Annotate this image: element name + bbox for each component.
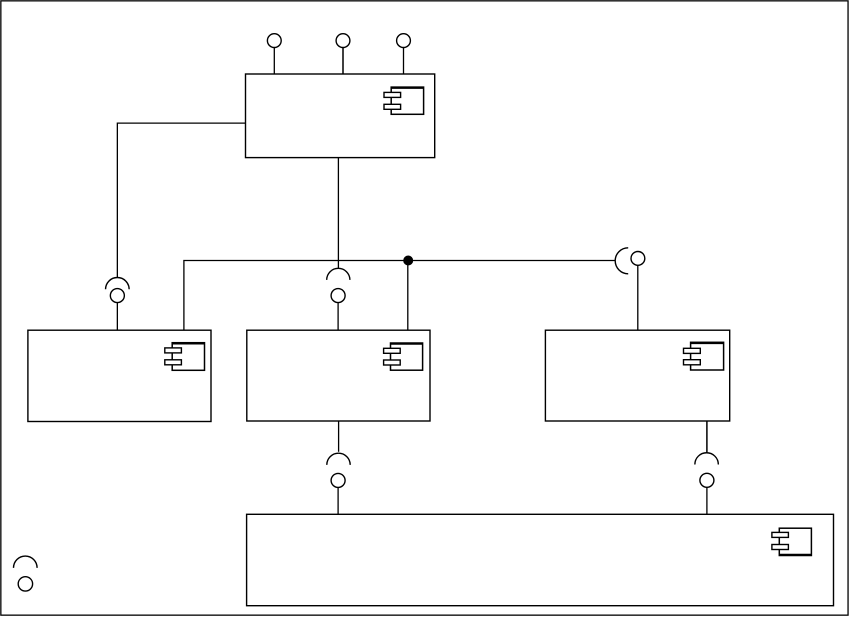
lollipop interface ball 1	[267, 34, 281, 48]
lollipop interface stem 1 (top-left of C1)	[273, 48, 275, 75]
wire ball down to bottom component top	[706, 487, 708, 514]
wire from junction dot down to middle component top	[407, 261, 409, 331]
ball below middle component	[331, 473, 345, 487]
wire ball to left component top	[116, 303, 118, 331]
component icon of C2	[165, 343, 205, 371]
ball (provided interface) at bus right end	[631, 252, 645, 266]
wire ball down to right component top	[637, 265, 639, 330]
wire ball to middle component top	[337, 303, 339, 331]
bus wire with elbow down to left component top	[184, 261, 615, 331]
wire from C1 left edge down to left socket	[117, 123, 245, 277]
socket below middle component	[327, 453, 350, 465]
component C2 (left)	[28, 330, 211, 421]
component C5 (bottom)	[247, 514, 834, 605]
component C3 (middle)	[247, 330, 430, 421]
isolated socket (required interface) bottom-left	[14, 556, 38, 568]
component icon of C1	[384, 87, 424, 114]
socket (required interface) above left component	[106, 278, 130, 290]
lollipop interface stem 2 (top-middle of C1)	[342, 48, 344, 75]
wire ball down to bottom component top	[337, 487, 339, 514]
ball (provided interface) above middle component	[331, 289, 345, 303]
ball (provided interface) above left component	[110, 289, 124, 303]
component icon of C3	[384, 343, 423, 370]
wire from C1 bottom down through bus to middle socket	[337, 158, 339, 269]
socket (required interface) above middle component	[327, 268, 350, 280]
isolated ball (provided interface) bottom-left	[18, 577, 32, 591]
component icon of C5	[772, 528, 812, 555]
socket (required interface, opens right) on bus right end	[615, 248, 628, 274]
component C1 (top)	[246, 74, 435, 158]
component icon of C4	[684, 342, 724, 370]
component C4 (right)	[545, 330, 729, 421]
ball below right component	[700, 473, 714, 487]
lollipop interface ball 3	[397, 34, 411, 48]
lollipop interface stem 3 (top-right of C1)	[403, 48, 405, 75]
lollipop interface ball 2	[336, 34, 350, 48]
wire right component bottom down to socket	[706, 421, 708, 452]
wire middle component bottom down to socket	[338, 421, 340, 452]
socket below right component	[695, 453, 719, 465]
junction dot on bus	[403, 256, 413, 266]
